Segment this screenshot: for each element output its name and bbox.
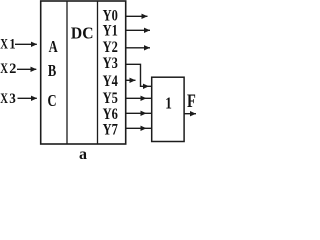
svg-text:Y1: Y1 (103, 22, 118, 40)
svg-text:1: 1 (165, 95, 172, 113)
svg-text:a: a (79, 146, 87, 159)
svg-text:X: X (0, 36, 8, 52)
svg-text:X: X (0, 60, 8, 76)
svg-text:B: B (48, 63, 57, 81)
svg-text:Y7: Y7 (103, 121, 118, 139)
svg-text:Y3: Y3 (103, 55, 118, 73)
svg-text:3: 3 (9, 91, 16, 107)
svg-text:2: 2 (9, 61, 16, 77)
svg-text:Y4: Y4 (103, 72, 118, 90)
svg-text:1: 1 (9, 36, 16, 52)
svg-text:X: X (0, 91, 8, 107)
svg-text:A: A (49, 39, 58, 57)
svg-text:C: C (48, 92, 57, 110)
svg-text:DC: DC (71, 23, 94, 43)
svg-text:F: F (187, 90, 196, 111)
